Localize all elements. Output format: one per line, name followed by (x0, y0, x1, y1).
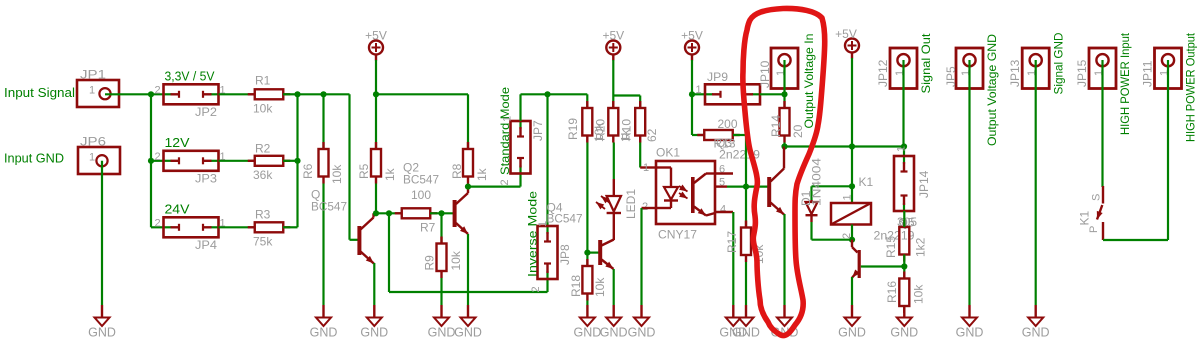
svg-text:Input GND: Input GND (4, 152, 64, 166)
svg-text:R3: R3 (255, 208, 271, 222)
svg-text:1: 1 (502, 116, 514, 122)
svg-text:1N4004: 1N4004 (810, 158, 824, 206)
svg-text:100: 100 (411, 188, 431, 202)
svg-text:10k: 10k (912, 284, 926, 304)
svg-text:Inverse Mode: Inverse Mode (526, 191, 540, 277)
svg-text:+5V: +5V (602, 29, 624, 43)
svg-text:24V: 24V (165, 203, 191, 217)
svg-text:GND: GND (732, 326, 760, 340)
svg-text:P: P (1088, 226, 1100, 233)
svg-text:+5V: +5V (835, 27, 857, 41)
svg-text:GND: GND (88, 326, 116, 340)
svg-text:JP14: JP14 (917, 170, 931, 198)
svg-text:JP8: JP8 (558, 244, 572, 265)
svg-text:75k: 75k (253, 235, 273, 249)
svg-text:R19: R19 (566, 118, 580, 140)
svg-text:36k: 36k (253, 168, 273, 182)
svg-text:JP4: JP4 (195, 238, 217, 252)
svg-text:2: 2 (155, 217, 161, 229)
svg-text:R15: R15 (884, 236, 898, 258)
svg-text:12V: 12V (165, 136, 191, 150)
svg-text:10k: 10k (593, 277, 607, 297)
svg-text:HIGH POWER Output: HIGH POWER Output (1184, 32, 1198, 142)
svg-text:GND: GND (956, 326, 984, 340)
svg-text:1: 1 (696, 84, 702, 96)
svg-text:Input Signal: Input Signal (4, 86, 75, 100)
svg-text:GND: GND (360, 326, 388, 340)
svg-text:JP15: JP15 (1075, 59, 1089, 87)
svg-text:1k: 1k (383, 167, 397, 181)
svg-text:1: 1 (643, 162, 649, 174)
svg-text:4: 4 (720, 204, 726, 216)
svg-text:+5V: +5V (365, 29, 387, 43)
svg-text:3,3V / 5V: 3,3V / 5V (165, 70, 216, 84)
svg-text:R7: R7 (420, 221, 436, 235)
svg-text:1: 1 (896, 146, 908, 152)
svg-text:1k: 1k (475, 167, 489, 181)
svg-text:JP1: JP1 (80, 68, 106, 82)
svg-text:GND: GND (838, 326, 866, 340)
svg-text:K1: K1 (859, 175, 874, 189)
svg-text:JP10: JP10 (758, 60, 772, 88)
svg-text:GND: GND (1022, 326, 1050, 340)
svg-text:2: 2 (530, 286, 542, 292)
svg-text:JP9: JP9 (707, 70, 728, 84)
svg-text:BC547: BC547 (311, 200, 347, 214)
svg-text:R9: R9 (423, 255, 437, 271)
svg-text:1: 1 (89, 152, 95, 164)
svg-text:R10: R10 (620, 119, 634, 141)
svg-text:S: S (1091, 194, 1103, 201)
svg-text:1: 1 (89, 85, 95, 97)
svg-text:R5: R5 (357, 163, 371, 179)
svg-text:K1: K1 (1078, 210, 1092, 225)
svg-text:10k: 10k (449, 250, 463, 270)
svg-text:HIGH POWER Input: HIGH POWER Input (1118, 32, 1132, 135)
svg-text:R8: R8 (450, 163, 464, 179)
svg-text:GND: GND (428, 326, 456, 340)
svg-text:Signal GND: Signal GND (1051, 32, 1065, 94)
svg-text:JP11: JP11 (1141, 60, 1155, 87)
svg-text:62: 62 (645, 128, 659, 142)
svg-text:JP2: JP2 (195, 105, 217, 119)
svg-text:2: 2 (499, 179, 511, 185)
svg-text:GND: GND (600, 326, 628, 340)
svg-text:Output Voltage In: Output Voltage In (802, 34, 816, 129)
svg-text:JP5: JP5 (944, 66, 958, 87)
svg-text:GND: GND (628, 326, 656, 340)
svg-text:GND: GND (890, 326, 918, 340)
svg-text:LED1: LED1 (624, 189, 638, 219)
svg-text:20: 20 (791, 124, 805, 138)
svg-text:R2: R2 (255, 142, 271, 156)
svg-text:10k: 10k (330, 164, 344, 184)
svg-text:JP6: JP6 (80, 135, 106, 149)
svg-text:BC547: BC547 (547, 212, 583, 226)
svg-text:R14: R14 (769, 115, 783, 137)
svg-text:10k: 10k (253, 102, 273, 116)
svg-text:JP7: JP7 (531, 120, 545, 141)
svg-text:GND: GND (454, 326, 482, 340)
svg-text:R18: R18 (569, 275, 583, 297)
svg-text:2: 2 (155, 151, 161, 163)
svg-text:JP3: JP3 (195, 172, 217, 186)
svg-text:JP12: JP12 (876, 59, 890, 87)
svg-text:OK1: OK1 (656, 146, 680, 160)
svg-text:200: 200 (718, 117, 738, 131)
svg-text:R16: R16 (885, 281, 899, 303)
svg-text:JP13: JP13 (1008, 59, 1022, 87)
svg-text:Output Voltage GND: Output Voltage GND (985, 34, 999, 146)
svg-text:Standard Mode: Standard Mode (498, 87, 512, 175)
svg-text:1: 1 (842, 194, 854, 200)
svg-text:R20: R20 (594, 119, 608, 141)
svg-text:+5V: +5V (681, 29, 703, 43)
svg-text:2: 2 (155, 84, 161, 96)
svg-text:BC547: BC547 (403, 173, 439, 187)
svg-text:R6: R6 (301, 163, 315, 179)
svg-text:R17: R17 (725, 231, 739, 253)
svg-text:GND: GND (310, 326, 338, 340)
svg-text:CNY17: CNY17 (658, 228, 697, 242)
svg-text:Signal Out: Signal Out (919, 33, 933, 94)
svg-text:R1: R1 (255, 74, 271, 88)
svg-text:1k2: 1k2 (914, 237, 928, 257)
svg-text:GND: GND (574, 326, 602, 340)
